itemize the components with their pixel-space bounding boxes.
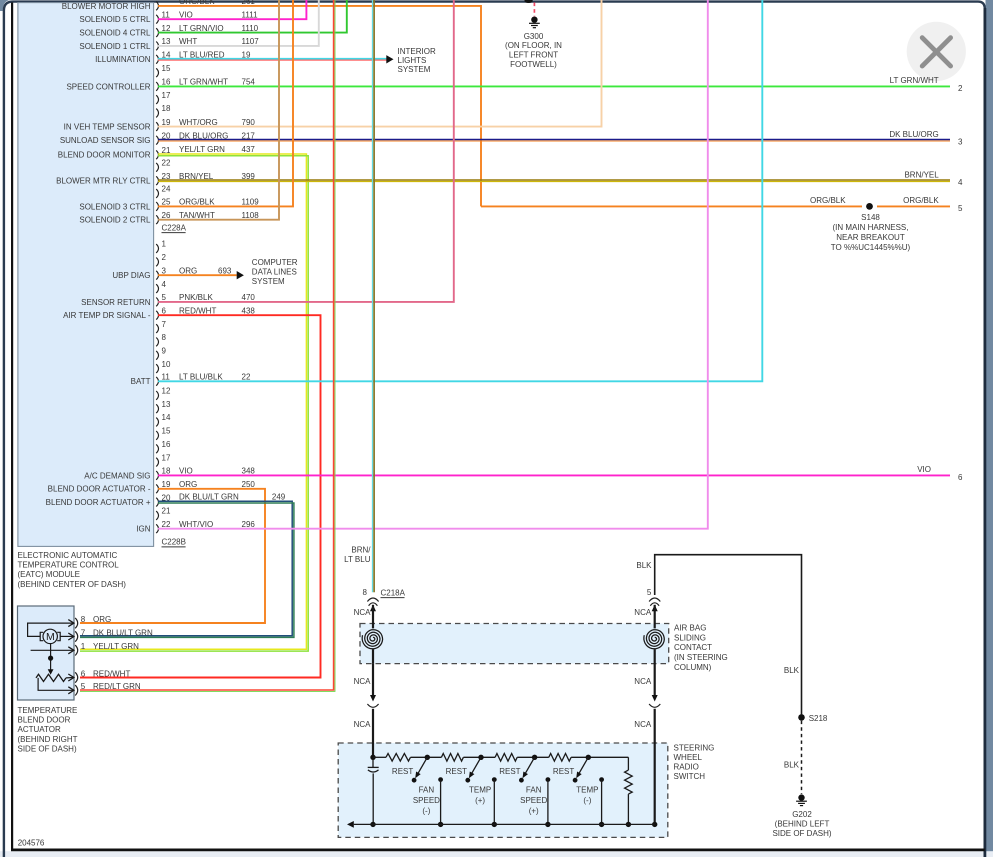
svg-text:22: 22 (162, 159, 171, 168)
net 6 (958, 473, 963, 482)
label NCA 1 left (354, 608, 372, 617)
label switch 3 function (520, 785, 547, 815)
wire ORG 693 pin 3 (158, 266, 237, 275)
svg-text:ORG/BLK: ORG/BLK (179, 198, 215, 207)
label REST 2 (446, 767, 467, 776)
svg-text:261: 261 (242, 0, 256, 6)
svg-text:(BEHIND RIGHT: (BEHIND RIGHT (18, 735, 78, 744)
label computer data lines system (252, 258, 298, 286)
svg-text:ORG: ORG (93, 615, 111, 624)
svg-text:SUNLOAD SENSOR SIG: SUNLOAD SENSOR SIG (60, 136, 151, 145)
svg-text:LT BLU: LT BLU (344, 555, 371, 564)
wire LT BLU/BLK 22 pin 11 (158, 0, 762, 382)
svg-text:5: 5 (162, 293, 167, 302)
svg-text:BRN/YEL: BRN/YEL (179, 172, 214, 181)
label interior lights system (398, 47, 436, 74)
EATC pin function labels C228B (46, 271, 151, 533)
svg-text:STEERING: STEERING (674, 744, 715, 753)
label NCA 2 left (354, 677, 372, 686)
svg-text:12: 12 (162, 387, 171, 396)
svg-text:DK BLU/ORG: DK BLU/ORG (179, 131, 228, 140)
svg-text:SYSTEM: SYSTEM (252, 277, 285, 286)
svg-text:11: 11 (162, 10, 171, 19)
svg-text:(EATC) MODULE: (EATC) MODULE (18, 570, 81, 579)
node switch 2 (478, 755, 483, 760)
svg-text:470: 470 (242, 293, 256, 302)
svg-text:TEMP: TEMP (469, 785, 491, 794)
svg-text:ACTUATOR: ACTUATOR (18, 725, 61, 734)
wire NCA right middle (654, 664, 656, 695)
label BRN/YEL right (904, 170, 939, 179)
svg-text:SWITCH: SWITCH (674, 772, 706, 781)
svg-text:19: 19 (162, 118, 171, 127)
label ORG/BLK right of S148 (903, 196, 939, 205)
wire NCA left lower (372, 709, 374, 758)
svg-text:SOLENOID 3 CTRL: SOLENOID 3 CTRL (79, 202, 151, 211)
svg-text:BLK: BLK (784, 761, 800, 770)
label REST 3 (499, 767, 520, 776)
net 5 (958, 204, 963, 213)
resistor R3 (495, 754, 517, 762)
svg-text:A/C DEMAND SIG: A/C DEMAND SIG (84, 471, 150, 480)
wire NCA airbag upper left (372, 605, 374, 629)
net 2 (958, 84, 963, 93)
svg-text:ORG: ORG (179, 480, 197, 489)
svg-text:217: 217 (242, 131, 256, 140)
svg-text:BLEND DOOR ACTUATOR -: BLEND DOOR ACTUATOR - (48, 485, 151, 494)
svg-text:SOLENOID 1 CTRL: SOLENOID 1 CTRL (79, 42, 151, 51)
svg-text:3: 3 (162, 266, 167, 275)
svg-text:TO %%UC1445%%U): TO %%UC1445%%U) (831, 243, 911, 252)
svg-text:DK BLU/LT GRN: DK BLU/LT GRN (93, 628, 153, 637)
wire NCA right lower (654, 709, 656, 825)
EATC pin function labels C228A (56, 2, 151, 225)
actuator resistor return wiring (38, 678, 73, 690)
label air bag sliding contact (674, 623, 728, 672)
svg-text:SLIDING: SLIDING (674, 633, 706, 642)
svg-text:1110: 1110 (242, 24, 259, 33)
label pin 5 C218A right (647, 588, 652, 597)
svg-text:ORG/BLK: ORG/BLK (179, 0, 215, 6)
label G202 (772, 810, 831, 838)
clipped symbol above G300 (524, 0, 532, 3)
svg-text:249: 249 (272, 493, 286, 502)
svg-text:CONTACT: CONTACT (674, 643, 712, 652)
ground G202 (796, 794, 807, 805)
switch SW3 arm (519, 757, 535, 782)
wire WHT/VIO 296 pin 22 (158, 0, 708, 529)
switch SW4 contact (599, 777, 604, 824)
svg-text:PNK/BLK: PNK/BLK (179, 293, 213, 302)
connector C218A pin 5 (649, 598, 660, 611)
svg-text:26: 26 (162, 211, 171, 220)
switch bus top wire (373, 756, 628, 758)
svg-text:BLOWER MTR RLY CTRL: BLOWER MTR RLY CTRL (56, 177, 151, 186)
wire NCA airbag upper right (654, 605, 656, 629)
junction resistor bus (626, 822, 631, 827)
label NCA 1 right (634, 608, 652, 617)
svg-text:(-): (-) (583, 796, 591, 805)
svg-text:VIO: VIO (179, 467, 193, 476)
wire ORG 250 pin 19 (80, 480, 265, 623)
canvas inner border left (11, 3, 13, 851)
label REST 1 (392, 767, 413, 776)
svg-text:LT BLU/RED: LT BLU/RED (179, 51, 225, 60)
connector C228A pins 10-26 stubs (156, 2, 171, 225)
switch SW2 arm (465, 757, 481, 782)
switch SW1 arm (412, 757, 428, 782)
svg-text:DK BLU/LT GRN: DK BLU/LT GRN (179, 493, 239, 502)
svg-text:SIDE OF DASH): SIDE OF DASH) (772, 829, 831, 838)
svg-text:LT GRN/VIO: LT GRN/VIO (179, 24, 224, 33)
svg-text:WHT: WHT (179, 37, 197, 46)
svg-text:REST: REST (446, 767, 467, 776)
svg-text:9: 9 (162, 347, 167, 356)
svg-text:TEMPERATURE: TEMPERATURE (18, 706, 78, 715)
node switch 1 (425, 755, 430, 760)
svg-text:ELECTRONIC AUTOMATIC: ELECTRONIC AUTOMATIC (18, 551, 118, 560)
wire NCA left middle (372, 664, 374, 695)
svg-text:3: 3 (958, 138, 963, 147)
svg-text:437: 437 (242, 145, 256, 154)
svg-text:10: 10 (162, 360, 171, 369)
svg-text:BLEND DOOR ACTUATOR +: BLEND DOOR ACTUATOR + (46, 498, 151, 507)
resistor R1 (386, 754, 411, 762)
svg-text:WHEEL: WHEEL (674, 753, 703, 762)
svg-text:BRN/YEL: BRN/YEL (904, 170, 939, 179)
svg-text:S148: S148 (861, 213, 880, 222)
splice S148 (866, 203, 873, 210)
svg-text:4: 4 (958, 178, 963, 187)
wire YEL/LT GRN 437 pin 21 (80, 145, 308, 651)
temperature blend door actuator box (18, 606, 75, 700)
svg-text:5: 5 (647, 588, 652, 597)
svg-text:17: 17 (162, 453, 171, 462)
svg-text:VIO: VIO (179, 10, 193, 19)
label switch 1 function (413, 785, 440, 815)
svg-text:REST: REST (553, 767, 574, 776)
svg-text:790: 790 (242, 118, 256, 127)
svg-text:6: 6 (162, 306, 167, 315)
air bag sliding contact box (360, 624, 669, 664)
svg-text:22: 22 (162, 520, 171, 529)
svg-text:LEFT FRONT: LEFT FRONT (509, 51, 558, 60)
connector C228B label (162, 538, 186, 547)
svg-text:2: 2 (958, 84, 963, 93)
svg-text:G300: G300 (524, 32, 544, 41)
wire LT BLU/RED 19 pin 14 (158, 51, 387, 61)
wire DK BLU/LT GRN 249 pin 20 (80, 493, 294, 638)
inline connector left (367, 695, 378, 707)
svg-text:NCA: NCA (634, 677, 652, 686)
svg-text:ORG/BLK: ORG/BLK (810, 196, 846, 205)
svg-text:G202: G202 (792, 810, 812, 819)
svg-text:(BEHIND CENTER OF DASH): (BEHIND CENTER OF DASH) (18, 580, 127, 589)
net 3 (958, 138, 963, 147)
svg-text:399: 399 (242, 172, 256, 181)
wire BRN/LT BLU vertical (373, 0, 375, 592)
resistor R4 (549, 754, 571, 762)
svg-text:BATT: BATT (131, 377, 151, 386)
svg-text:(BEHIND LEFT: (BEHIND LEFT (775, 819, 830, 828)
svg-text:FOOTWELL): FOOTWELL) (510, 60, 557, 69)
svg-text:1108: 1108 (242, 211, 260, 220)
switch SW1 contact (438, 777, 443, 824)
actuator connector pins (68, 615, 153, 696)
svg-text:NCA: NCA (354, 720, 372, 729)
wire WHT 1107 pin 13 (158, 0, 319, 46)
svg-text:DATA LINES: DATA LINES (252, 268, 297, 277)
actuator motor wiring (28, 623, 74, 636)
svg-text:M: M (46, 631, 55, 643)
svg-text:693: 693 (218, 266, 232, 275)
EATC module box (18, 3, 154, 547)
wire RED/LT GRN pin 5 actuator (80, 0, 335, 691)
svg-text:8: 8 (81, 615, 86, 624)
svg-text:SPEED CONTROLLER: SPEED CONTROLLER (66, 82, 150, 91)
resistor R2 (441, 754, 463, 762)
junction capacitor node (370, 755, 375, 760)
wire ORG/BLK 1109 pin 25 (158, 0, 293, 207)
svg-text:S218: S218 (809, 714, 828, 723)
svg-text:SOLENOID 2 CTRL: SOLENOID 2 CTRL (79, 216, 151, 225)
svg-text:SENSOR RETURN: SENSOR RETURN (81, 298, 151, 307)
svg-text:754: 754 (242, 78, 256, 87)
svg-text:4: 4 (162, 280, 167, 289)
svg-text:REST: REST (499, 767, 520, 776)
canvas inner border bottom (11, 849, 985, 852)
connector C228A label (162, 223, 187, 232)
svg-text:WHT/VIO: WHT/VIO (179, 520, 213, 529)
label EATC module (18, 551, 127, 589)
canvas frame right outer background (986, 0, 993, 857)
svg-text:LT GRN/WHT: LT GRN/WHT (179, 78, 228, 87)
label BRN/LT BLU (344, 545, 371, 564)
junction capacitor bus (370, 822, 375, 827)
label NCA 2 right (634, 677, 652, 686)
svg-text:204576: 204576 (18, 838, 45, 847)
svg-text:C228A: C228A (162, 223, 187, 232)
svg-text:1107: 1107 (242, 37, 260, 46)
svg-text:24: 24 (162, 185, 171, 194)
node switch 3 (532, 755, 537, 760)
svg-text:13: 13 (162, 37, 171, 46)
wire PNK dashed to G300 (533, 3, 535, 17)
svg-text:NEAR BREAKOUT: NEAR BREAKOUT (836, 233, 905, 242)
close button (907, 22, 966, 81)
wire WHT/ORG 790 pin 19 (158, 0, 602, 127)
svg-text:12: 12 (162, 24, 171, 33)
svg-text:7: 7 (81, 628, 86, 637)
switch SW2 contact (492, 777, 497, 824)
label steering wheel radio switch (674, 744, 715, 781)
arrow to interior lights system (386, 55, 393, 63)
svg-text:UBP DIAG: UBP DIAG (112, 271, 150, 280)
label LT GRN/WHT right (890, 76, 939, 85)
switch SW4 arm (573, 757, 589, 782)
actuator wiper junction (48, 656, 53, 661)
label DK BLU/ORG right (889, 130, 938, 139)
svg-text:NCA: NCA (354, 608, 372, 617)
svg-text:FAN: FAN (419, 785, 435, 794)
svg-text:13: 13 (162, 400, 171, 409)
node switch 4 (586, 755, 591, 760)
svg-text:LIGHTS: LIGHTS (398, 56, 427, 65)
svg-text:(+): (+) (529, 807, 539, 816)
wire DK BLU/ORG 217 pin 20 (158, 131, 950, 141)
svg-text:C228B: C228B (162, 538, 186, 547)
label BLK top (636, 561, 652, 570)
svg-text:18: 18 (162, 104, 171, 113)
svg-text:C218A: C218A (381, 588, 406, 597)
svg-text:22: 22 (242, 373, 251, 382)
junction bus node 2 (492, 822, 497, 827)
svg-text:TAN/WHT: TAN/WHT (179, 211, 215, 220)
steering wheel radio switch box (338, 743, 668, 837)
actuator position resistor (36, 674, 74, 681)
connector C218A (367, 588, 405, 611)
label switch 4 function (576, 785, 598, 805)
svg-text:(-): (-) (422, 807, 430, 816)
svg-text:SPEED: SPEED (520, 796, 547, 805)
switch bus bottom wire (347, 821, 655, 828)
label pin 8 C218A (363, 588, 368, 597)
svg-text:438: 438 (242, 306, 256, 315)
svg-text:16: 16 (162, 78, 171, 87)
svg-text:SIDE OF DASH): SIDE OF DASH) (18, 745, 77, 754)
svg-text:(ON FLOOR, IN: (ON FLOOR, IN (505, 41, 562, 50)
label NCA 3 right (634, 720, 652, 729)
spiral clockspring left (362, 630, 382, 664)
svg-text:NCA: NCA (634, 720, 652, 729)
svg-text:SOLENOID 5 CTRL: SOLENOID 5 CTRL (79, 15, 151, 24)
capacitor C1 (368, 759, 379, 824)
connector C228B pins 1-22 stubs (156, 240, 171, 533)
svg-text:BLK: BLK (784, 666, 800, 675)
svg-text:RED/WHT: RED/WHT (93, 669, 130, 678)
resistor R5 vertical (625, 757, 633, 824)
inline connector right (649, 695, 660, 707)
svg-text:BLOWER MOTOR HIGH: BLOWER MOTOR HIGH (62, 2, 151, 11)
actuator motor M1 (40, 629, 60, 643)
svg-text:8: 8 (162, 333, 167, 342)
svg-text:11: 11 (162, 373, 171, 382)
svg-text:19: 19 (162, 480, 171, 489)
net 4 (958, 178, 963, 187)
svg-text:NCA: NCA (634, 608, 652, 617)
svg-text:TEMP: TEMP (576, 785, 598, 794)
svg-text:AIR TEMP DR SIGNAL -: AIR TEMP DR SIGNAL - (63, 311, 151, 320)
svg-text:FAN: FAN (526, 785, 542, 794)
svg-text:TEMPERATURE CONTROL: TEMPERATURE CONTROL (18, 561, 120, 570)
svg-text:SOLENOID 4 CTRL: SOLENOID 4 CTRL (79, 29, 151, 38)
svg-text:BLEND DOOR: BLEND DOOR (18, 716, 71, 725)
diagram id 204576 (18, 838, 45, 847)
svg-text:(IN STEERING: (IN STEERING (674, 653, 728, 662)
svg-text:348: 348 (242, 467, 256, 476)
wire ORG/BLK splice row (481, 205, 950, 207)
svg-text:DK BLU/ORG: DK BLU/ORG (889, 130, 938, 139)
svg-text:6: 6 (81, 669, 86, 678)
svg-text:VIO: VIO (917, 465, 931, 474)
label ORG/BLK left of S148 (810, 196, 846, 205)
svg-text:19: 19 (242, 51, 251, 60)
junction bus node 1 (438, 822, 443, 827)
svg-text:AIR BAG: AIR BAG (674, 623, 706, 632)
svg-text:15: 15 (162, 427, 171, 436)
junction bus node 3 (545, 822, 550, 827)
wire LT GRN/WHT 754 pin 16 (158, 78, 950, 87)
svg-text:INTERIOR: INTERIOR (398, 47, 436, 56)
svg-text:1: 1 (81, 642, 86, 651)
wire ORG/BLK 261 pin 10 (158, 0, 481, 206)
svg-text:SPEED: SPEED (413, 796, 440, 805)
label G300 (505, 32, 562, 69)
ground G300 (529, 17, 540, 28)
wire VIO 348 pin 18 (158, 467, 950, 476)
svg-text:6: 6 (958, 473, 963, 482)
svg-text:21: 21 (162, 507, 171, 516)
svg-text:ORG: ORG (179, 266, 197, 275)
svg-text:NCA: NCA (354, 677, 372, 686)
svg-text:5: 5 (958, 204, 963, 213)
arrow to computer data lines (237, 271, 244, 279)
label VIO right (917, 465, 931, 474)
splice S218 (798, 714, 828, 723)
svg-text:IN VEH TEMP SENSOR: IN VEH TEMP SENSOR (64, 123, 151, 132)
svg-text:15: 15 (162, 64, 171, 73)
svg-text:8: 8 (363, 588, 368, 597)
svg-text:1: 1 (162, 240, 167, 249)
label S148 note (831, 213, 911, 252)
svg-text:16: 16 (162, 440, 171, 449)
switch SW3 contact (546, 777, 551, 824)
svg-text:1111: 1111 (242, 10, 259, 19)
svg-text:BRN/: BRN/ (351, 545, 371, 554)
svg-text:25: 25 (162, 198, 171, 207)
svg-text:ORG/BLK: ORG/BLK (903, 196, 939, 205)
wire TAN/WHT 1108 pin 26 (158, 0, 279, 220)
svg-text:YEL/LT GRN: YEL/LT GRN (93, 642, 139, 651)
svg-text:2: 2 (162, 253, 167, 262)
svg-text:18: 18 (162, 467, 171, 476)
spiral clockspring right (644, 630, 664, 664)
svg-text:REST: REST (392, 767, 413, 776)
canvas frame bottom outer background (0, 851, 993, 857)
svg-text:(+): (+) (475, 796, 485, 805)
svg-text:(IN MAIN HARNESS,: (IN MAIN HARNESS, (832, 223, 908, 232)
svg-text:LT GRN/WHT: LT GRN/WHT (890, 76, 939, 85)
svg-text:LT BLU/BLK: LT BLU/BLK (179, 373, 223, 382)
svg-text:RADIO: RADIO (674, 762, 699, 771)
canvas frame top-left outer corner (0, 0, 10, 11)
junction bus node 4 (599, 822, 604, 827)
label switch 2 function (469, 785, 491, 805)
svg-text:296: 296 (242, 520, 256, 529)
wire BLK dashed to G202 (801, 721, 803, 794)
label BLK dashed (784, 761, 800, 770)
svg-text:BLK: BLK (636, 561, 652, 570)
svg-text:250: 250 (242, 480, 256, 489)
label NCA 3 left (354, 720, 372, 729)
svg-text:SYSTEM: SYSTEM (398, 65, 431, 74)
svg-text:WHT/ORG: WHT/ORG (179, 118, 218, 127)
svg-text:7: 7 (162, 320, 167, 329)
svg-text:COMPUTER: COMPUTER (252, 258, 298, 267)
svg-text:BLEND DOOR MONITOR: BLEND DOOR MONITOR (58, 151, 151, 160)
svg-text:1109: 1109 (242, 198, 260, 207)
wire LT GRN/VIO 1110 pin 12 (158, 0, 347, 33)
